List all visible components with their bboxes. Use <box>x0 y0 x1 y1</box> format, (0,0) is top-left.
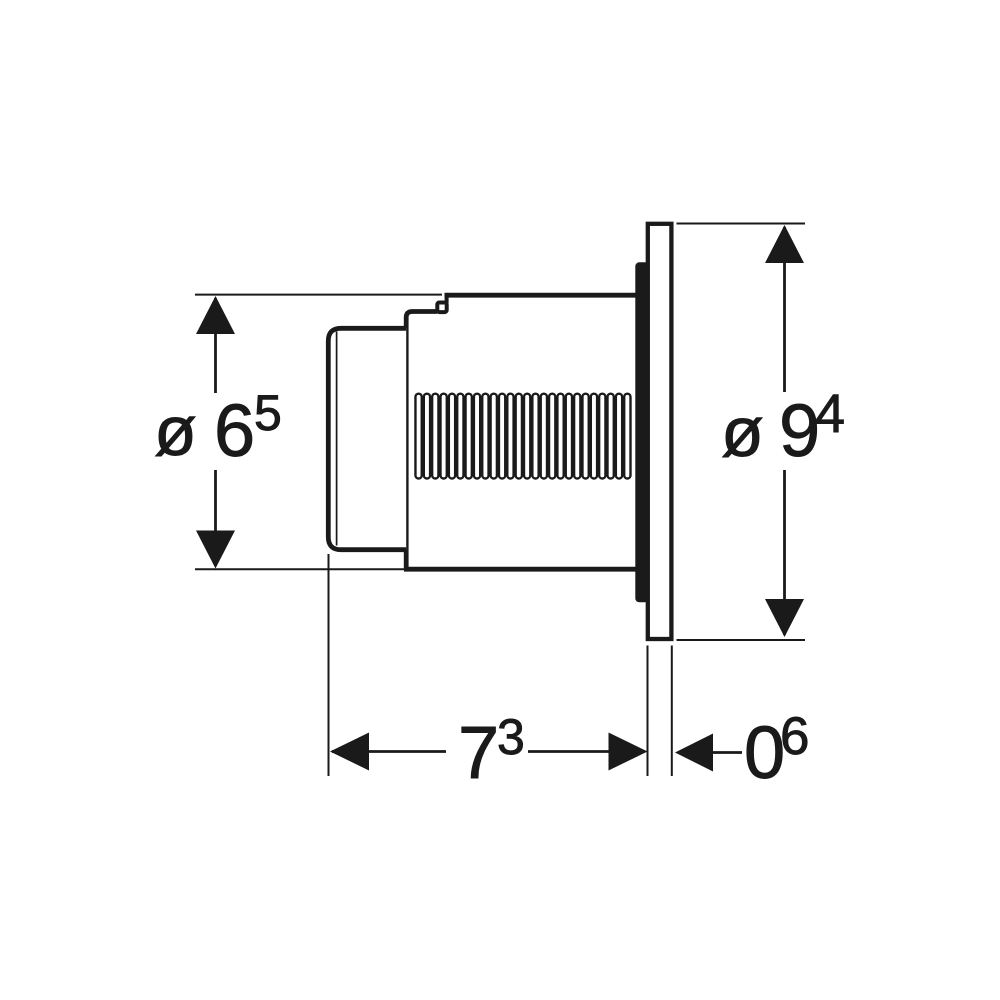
svg-text:0: 0 <box>744 711 785 794</box>
dimension line 7.3 left segment <box>332 750 446 753</box>
extension line bottom (dia 6.5) <box>195 568 404 570</box>
dimension tail line (0.6) <box>711 751 742 754</box>
corrugated ribs (bellows) <box>415 394 630 479</box>
arrow up (dia 6.5) <box>196 296 235 334</box>
svg-text:ø: ø <box>154 392 197 470</box>
cover plate (wall plate, tall thin rectangle) <box>648 224 672 639</box>
arrow down (dia 9.4) <box>765 599 804 637</box>
button face inner line <box>336 332 338 546</box>
dimension line dia 6.5 lower segment <box>214 470 217 566</box>
svg-text:6: 6 <box>780 707 809 766</box>
button bezel (front rounded face) <box>328 328 406 549</box>
arrow up (dia 9.4) <box>765 225 804 263</box>
extension line middle (7.3 right / 0.6 left) <box>647 646 649 777</box>
dimension line dia 6.5 upper segment <box>214 298 217 393</box>
extension line top (dia 9.4) <box>677 223 806 225</box>
extension line bottom (dia 9.4) <box>677 639 806 641</box>
svg-text:ø: ø <box>721 393 764 471</box>
dimension line dia 9.4 lower segment <box>783 470 786 635</box>
arrow left (7.3) <box>330 733 369 771</box>
extension line right (0.6) <box>671 646 673 777</box>
svg-text:7: 7 <box>458 711 499 794</box>
svg-text:3: 3 <box>497 709 525 765</box>
svg-text:9: 9 <box>779 389 820 472</box>
arrow right (7.3) <box>609 733 648 771</box>
arrow down (dia 6.5) <box>196 531 235 569</box>
extension line top (dia 6.5) <box>195 294 442 296</box>
svg-text:6: 6 <box>214 389 255 472</box>
dimension line dia 9.4 upper segment <box>783 227 786 392</box>
body top edge <box>445 293 641 298</box>
clip detail (small square with hole at top step) <box>437 303 446 313</box>
extension line left (7.3) <box>328 554 330 776</box>
svg-text:5: 5 <box>254 385 282 441</box>
body bottom edge <box>404 567 637 572</box>
arrow left (0.6) <box>675 734 713 772</box>
svg-text:4: 4 <box>815 384 845 444</box>
clip stub to top edge <box>445 295 449 303</box>
flange (rear mounting collar, filled) <box>635 262 648 602</box>
actuator body outline (left edge + stepped shoulder) <box>406 312 437 570</box>
dimension line 7.3 right segment <box>528 750 645 753</box>
